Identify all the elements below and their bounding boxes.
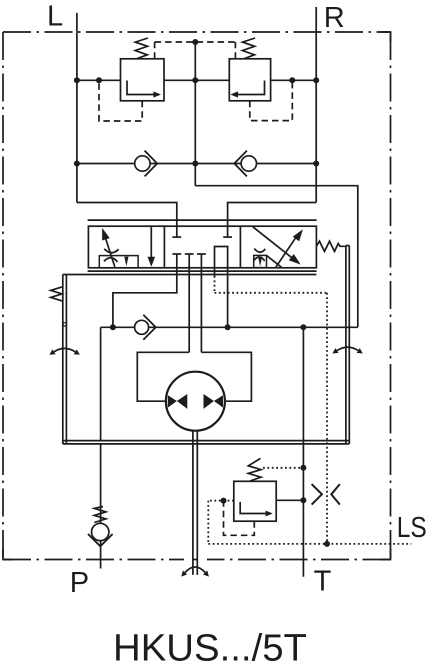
svg-text:T: T (314, 565, 332, 597)
svg-text:L: L (47, 0, 63, 32)
svg-text:R: R (324, 2, 345, 34)
svg-text:HKUS.../5T: HKUS.../5T (113, 628, 307, 670)
svg-text:P: P (70, 567, 89, 599)
svg-text:LS: LS (397, 512, 427, 544)
